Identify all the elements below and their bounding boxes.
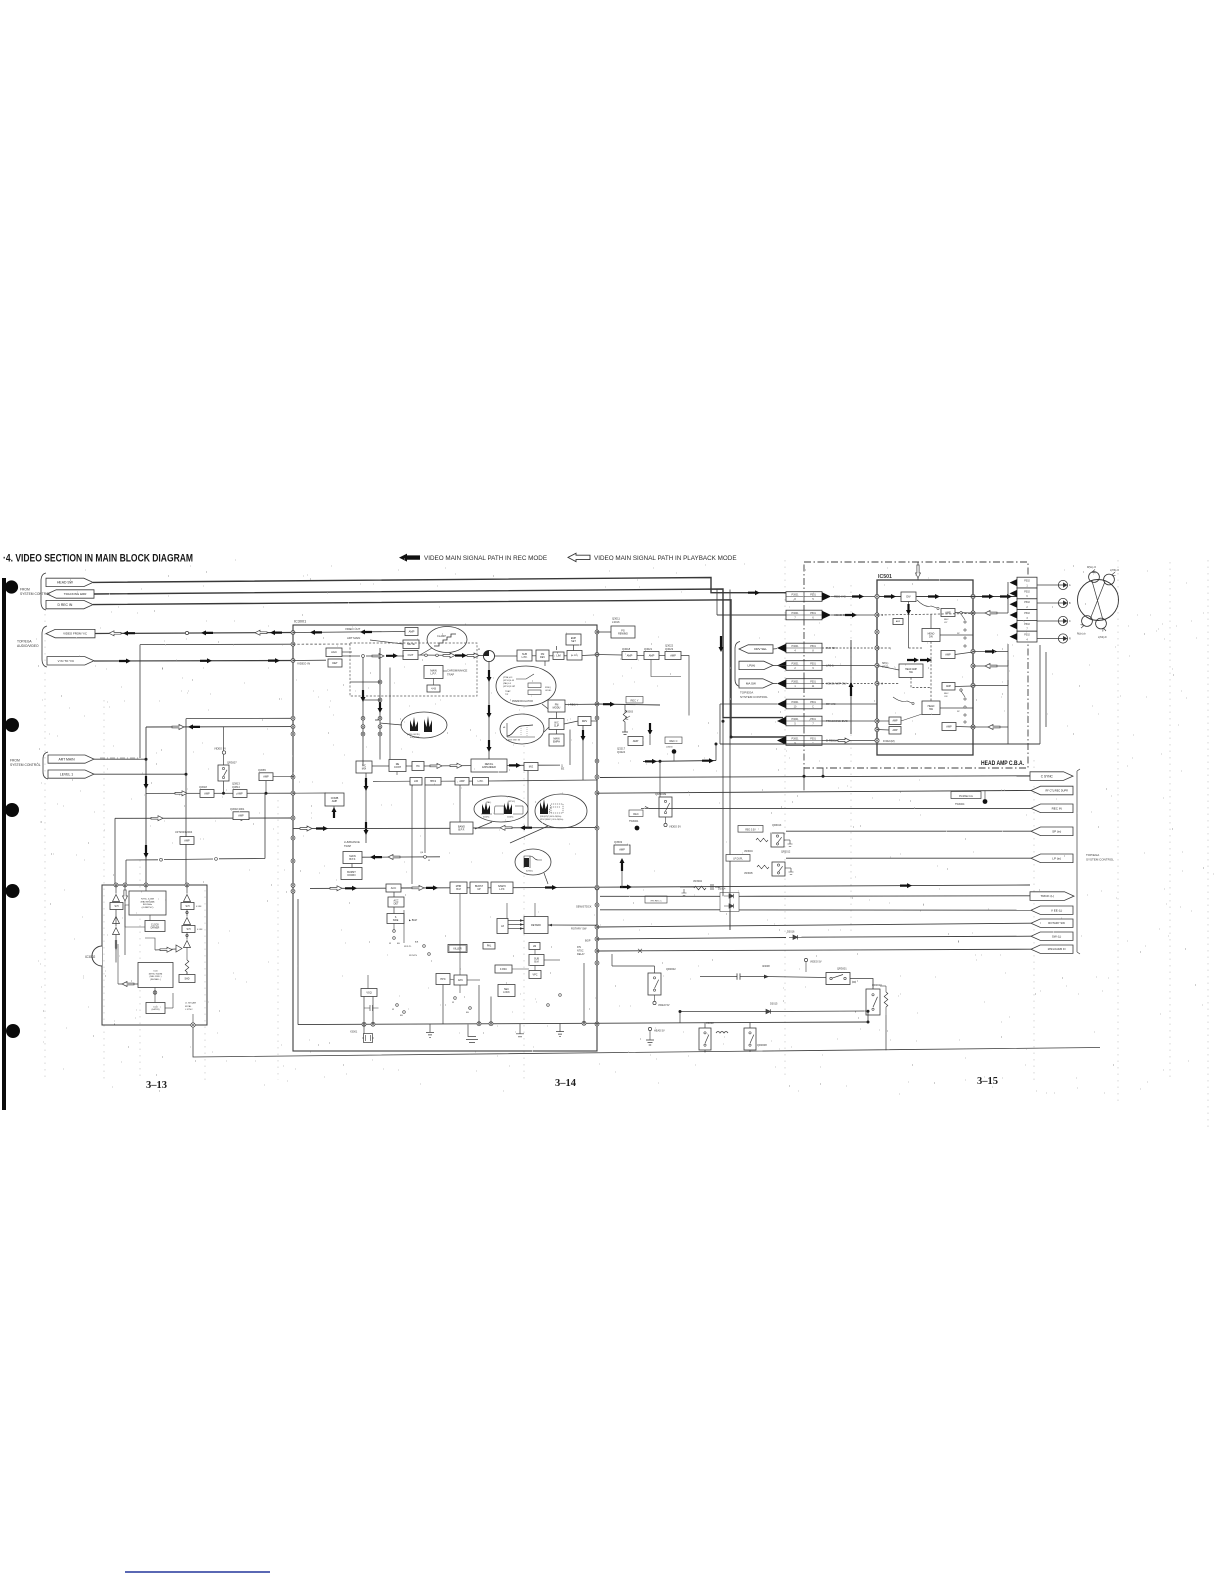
wire premod down x511 [510, 665, 512, 667]
svg-text:DRV SEL: DRV SEL [754, 647, 767, 651]
svg-text:ART MAIN: ART MAIN [58, 757, 75, 761]
binder hole 4 [6, 884, 20, 898]
svg-text:SYSTEM CONTROL: SYSTEM CONTROL [10, 763, 41, 767]
head amp cba chain-line enclosure [804, 562, 1028, 768]
svg-text:P501: P501 [810, 680, 816, 683]
svg-text:EMPH: EMPH [553, 740, 560, 743]
svg-text:AMP: AMP [893, 720, 898, 723]
emp set block [566, 634, 581, 645]
legend arrow: REC mode (filled) [399, 554, 420, 562]
svg-text:P502: P502 [1024, 612, 1030, 615]
svg-text:Q3002,3001: Q3002,3001 [230, 807, 245, 811]
scan noise speckle [36, 558, 1214, 1094]
svg-text:B.M: B.M [534, 960, 538, 963]
connector P502 pin 2 [1017, 588, 1037, 599]
wire riser x186 [185, 719, 187, 885]
wire ART MAIN feed [94, 758, 146, 760]
wire video out y632 inside [293, 632, 405, 633]
svg-text:H: H [478, 647, 480, 651]
svg-text:HPC: HPC [440, 978, 445, 981]
svg-text:AMP: AMP [238, 815, 244, 818]
long riser wire x730 [729, 590, 731, 931]
svg-text:(MB3 4.0STK): (MB3 4.0STK) [407, 734, 420, 736]
svg-text:RF CTL/REC DUPR: RF CTL/REC DUPR [1045, 789, 1068, 792]
svg-text:(PAL)0.5: (PAL)0.5 [503, 682, 512, 685]
me block [524, 763, 538, 771]
svg-text:CLAMP: CLAMP [437, 634, 446, 638]
head div block [922, 629, 940, 642]
amp A3001 (video out) [405, 628, 418, 636]
svg-text:Q3023: Q3023 [665, 647, 674, 651]
svg-text:AMP: AMP [946, 725, 952, 728]
clamp output block [403, 651, 418, 660]
svg-text:HPF2: HPF2 [430, 780, 437, 783]
svg-text:Q3018: Q3018 [622, 647, 631, 651]
retard block [524, 917, 548, 934]
svg-text:AMP: AMP [332, 800, 338, 803]
switch mid lower [893, 697, 912, 703]
wire y761 rec c [643, 761, 716, 762]
svg-text:TW3001: TW3001 [629, 820, 639, 823]
IC3002 CCD delay IC box [102, 885, 207, 1025]
rec c label boxed [665, 737, 682, 744]
connector P3001/P501 RF Y/C [786, 699, 822, 709]
wire sh to triangle row [155, 949, 176, 950]
vertical feed x380 [379, 648, 381, 760]
wire h y727 [146, 726, 293, 728]
wire vee y910 [600, 909, 720, 911]
svg-text:TRACKING ERR: TRACKING ERR [64, 592, 88, 596]
riser x584 [583, 963, 585, 1023]
svg-text:C3012: C3012 [706, 1021, 714, 1025]
svg-text:TW3004: TW3004 [955, 803, 965, 806]
Q3217 Q3224 amp [628, 737, 643, 746]
lm block [529, 943, 540, 950]
svg-text:D REC IN: D REC IN [57, 603, 72, 607]
svg-text:R(SL) ch: R(SL) ch [1087, 567, 1097, 569]
head drum circle [1078, 580, 1119, 621]
svg-text:P3001: P3001 [792, 680, 800, 683]
IC501 right pins [971, 594, 975, 598]
svg-text:VIDEO IN: VIDEO IN [297, 662, 310, 666]
svg-text:QR3013: QR3013 [772, 824, 782, 827]
comb amp block [325, 793, 344, 806]
svg-text:SYSTEM CONTROL: SYSTEM CONTROL [740, 695, 768, 699]
wire y888 beyond IC3001 [597, 885, 1030, 887]
svg-text:AMP: AMP [627, 653, 633, 657]
relay QR3009 [659, 797, 672, 817]
bracket: audio/video group [42, 626, 47, 667]
riser x364 vsq/crystal [363, 997, 365, 1034]
ic3002 internal verticals [115, 885, 117, 894]
svg-text:(NTSC)4.43: (NTSC)4.43 [503, 680, 515, 682]
s side block [387, 914, 404, 924]
svg-text:LIM: LIM [556, 655, 560, 658]
svg-text:Q3814: Q3814 [232, 785, 240, 789]
svg-text:TRAP: TRAP [447, 673, 454, 677]
video 5v supply node left [222, 751, 225, 754]
svg-text:Q3011: Q3011 [612, 617, 620, 621]
svg-text:Q3217: Q3217 [617, 747, 626, 751]
svg-text:WVSPS: WVSPS [409, 955, 417, 957]
pg/mae cal boxed label [951, 792, 981, 799]
drv block [578, 717, 591, 726]
svg-text:(NTSC)3.58: (NTSC)3.58 [503, 686, 515, 688]
rec boxed label TW3001 [629, 810, 643, 817]
svg-text:L.P.F.: L.P.F. [478, 780, 484, 783]
riser x1008 head sw [1007, 727, 1009, 744]
hpf block [567, 651, 582, 661]
ground symbols bottom [426, 1024, 434, 1037]
flag VIDEO FROM Y/C [46, 629, 95, 637]
flag LP in [1031, 854, 1073, 863]
flag LEVEL 1 [48, 770, 94, 778]
scan artifact columns [44, 614, 46, 1080]
svg-text:CHROMINANCE: CHROMINANCE [447, 669, 468, 673]
lim2 block [410, 778, 422, 786]
svg-text:AMP: AMP [670, 653, 676, 657]
svg-text:IC501: IC501 [878, 574, 892, 580]
binder hole 3 [5, 803, 19, 817]
balloon: 629khz waveform [515, 849, 551, 875]
bracket mid flags [735, 642, 740, 687]
main lpf block [424, 666, 443, 679]
svg-text:D3014: D3014 [718, 888, 726, 891]
svg-text:629kHz: 629kHz [498, 886, 507, 888]
svg-text:F.OSC: F.OSC [500, 968, 507, 971]
page edge black bar [2, 578, 6, 1110]
wire bus branch down x612 [611, 954, 613, 966]
inner h wire y682 [350, 681, 380, 683]
video 5v node right [804, 958, 807, 961]
rec y label boxed [626, 697, 643, 704]
switch contacts rec lp upper [960, 612, 962, 614]
svg-text:VSQ: VSQ [366, 991, 371, 994]
vertical x489 transistor to detail [488, 662, 490, 759]
balloon: premodulator [496, 666, 556, 706]
svg-text:P3001: P3001 [792, 612, 800, 615]
drum head L bottom [1096, 618, 1107, 629]
wire h y718 [186, 717, 293, 719]
svg-text:REC: REC [633, 812, 639, 816]
svg-text:LEVEL: LEVEL [545, 690, 552, 692]
svg-text:EE: EE [561, 768, 565, 771]
wire IC501 to P502 top [973, 596, 1017, 598]
svg-text:TRICK (L): TRICK (L) [1041, 894, 1055, 898]
wire rec in y808 [649, 807, 1031, 809]
lp dupl boxed label [726, 855, 750, 862]
detail expander block [471, 759, 507, 772]
svg-text:525(H)s: 525(H)s [507, 817, 513, 819]
verticals from C SYNC line [822, 768, 824, 776]
IC501 head amp IC box [877, 580, 973, 755]
svg-text:S/H: S/H [187, 928, 191, 931]
main emphasis block [549, 734, 564, 746]
flag LP/H [739, 661, 773, 669]
wire switch line y860 [126, 859, 158, 861]
black down arrow x489 upper [487, 705, 492, 718]
riser x491 seclock [490, 997, 492, 1024]
bracket: system control group 2 [43, 752, 48, 779]
ccd delay block [138, 963, 173, 988]
svg-text:NTSC(380KC) OK 4.43(KHz): NTSC(380KC) OK 4.43(KHz) [540, 819, 564, 821]
wire dash boundary at y758 [100, 757, 140, 759]
wires IC501 right pins to P502 [973, 612, 1008, 614]
vertical feed x397 [396, 772, 398, 776]
svg-text:VR3002: VR3002 [693, 880, 703, 883]
svg-text:SYSTEM CONTROL: SYSTEM CONTROL [1086, 857, 1114, 861]
amp u501a [941, 609, 955, 617]
amp u501b [941, 651, 955, 659]
svg-text:QR3001: QR3001 [837, 967, 847, 971]
svg-text:AMP: AMP [237, 792, 243, 795]
svg-text:4.5SF: 4.5SF [197, 929, 203, 931]
svg-text:(H.P.F.): (H.P.F.) [571, 655, 578, 657]
acc block [386, 884, 401, 892]
svg-text:TRAP: TRAP [505, 690, 511, 693]
cap symbols bottom [364, 1005, 379, 1011]
svg-text:CCD: CCD [153, 1006, 158, 1008]
svg-text:REC: REC [944, 619, 949, 621]
svg-text:B.P.F.: B.P.F. [349, 858, 356, 861]
svg-text:DOWN: DOWN [348, 874, 356, 877]
svg-text:Q3224: Q3224 [617, 750, 626, 754]
band bpf block [450, 822, 473, 834]
svg-text:AMP: AMP [204, 792, 210, 795]
flag SW L [1031, 932, 1073, 940]
svg-text:SW (L): SW (L) [1052, 934, 1061, 938]
svg-text:AGC: AGC [331, 650, 337, 654]
svg-text:P502: P502 [1024, 634, 1030, 637]
svg-text:(64/911): (64/911) [152, 1009, 160, 1011]
svg-text:ROTARY SW: ROTARY SW [1048, 921, 1065, 925]
wire riser x146 to IC3002 [145, 727, 147, 885]
svg-text:IC3002: IC3002 [85, 955, 96, 959]
svg-text:U3T2003,2004: U3T2003,2004 [175, 830, 193, 834]
svg-text:QR3007: QR3007 [227, 761, 237, 765]
IC3001 main video IC box [293, 625, 597, 1051]
svg-text:CCD: CCD [153, 971, 158, 973]
vertical riser x985 sp [984, 820, 986, 831]
svg-text:HEAD 5V: HEAD 5V [654, 1030, 665, 1033]
amp u501e [889, 717, 901, 725]
wire V IN TO Y/C bus [94, 660, 293, 663]
connector P502 pin 4 [1017, 610, 1037, 621]
svg-text:SEW/STDCK: SEW/STDCK [576, 905, 592, 909]
svg-text:P501: P501 [810, 645, 816, 648]
fm dev block [536, 650, 549, 661]
wire lp y858 [786, 857, 1031, 859]
misc stub wires bottom of IC3001 [411, 857, 413, 884]
svg-text:L.P.F.: L.P.F. [430, 673, 436, 676]
resistor in ic3002 [185, 960, 189, 974]
wire riser x140 [139, 645, 141, 758]
mute block [403, 640, 419, 649]
inner junction nodes column x363 [361, 716, 365, 720]
svg-text:L NTSC: L NTSC [185, 1009, 193, 1011]
svg-text:AMP: AMP [184, 839, 190, 842]
IC501 internal wires [908, 602, 910, 649]
node grid right rail x597 extras [595, 716, 599, 720]
svg-text:Q3065: Q3065 [258, 768, 266, 772]
svg-text:M.E: M.E [529, 765, 534, 768]
IC3001 left edge pin nodes [291, 631, 295, 635]
svg-text:PAL: PAL [487, 945, 492, 948]
sub bm block [529, 955, 544, 966]
svg-text:Q3813: Q3813 [232, 781, 240, 785]
wires amp chain y655 [597, 654, 622, 657]
bottom rail from IC3002 [193, 1027, 1100, 1057]
svg-text:LP(H): LP(H) [747, 664, 755, 668]
drum head R bottom [1082, 616, 1093, 627]
svg-text:Q3018: Q3018 [199, 785, 207, 789]
riser x479 apc [478, 985, 480, 1024]
head 5v node [648, 1027, 651, 1030]
wires l8 to retard [508, 920, 524, 922]
IC3002 top pin nodes [114, 883, 118, 887]
svg-text:·4. VIDEO SECTION IN MAIN BLOC: ·4. VIDEO SECTION IN MAIN BLOCK DIAGRAM [3, 553, 193, 565]
svg-text:(PTAL)4.3: (PTAL)4.3 [503, 676, 513, 679]
wire feeds left of connectors [711, 592, 777, 594]
wire D REC IN run [93, 600, 786, 737]
svg-text:3–13: 3–13 [146, 1080, 167, 1091]
svg-text:D REC(M): D REC(M) [883, 740, 895, 743]
svg-text:S/H: S/H [115, 905, 119, 908]
svg-text:AMP: AMP [459, 780, 465, 783]
svg-text:REC Y: REC Y [631, 699, 639, 703]
svg-text:HEAD AMP C.B.A.: HEAD AMP C.B.A. [981, 760, 1024, 767]
apc block [454, 975, 467, 985]
amp u501f [889, 727, 901, 735]
wire y656 agc to clamp [342, 655, 404, 657]
wire y781 row [373, 780, 410, 782]
ccd 64/911 block [146, 1003, 165, 1014]
svg-text:4.5SF: 4.5SF [196, 906, 202, 908]
riser x373 [372, 997, 374, 1025]
ground stub y1035 [466, 1025, 478, 1043]
svg-text:IC3001: IC3001 [294, 620, 306, 624]
svg-text:V EE (L): V EE (L) [1051, 908, 1062, 912]
wire trick y896 [600, 895, 720, 897]
svg-text:DET: DET [332, 661, 338, 665]
inner vertical rail x363 [362, 658, 364, 767]
svg-text:B.M: B.M [456, 888, 460, 891]
svg-text:AMP: AMP [619, 847, 625, 851]
629 lpf block [491, 882, 513, 894]
svg-text:P502: P502 [1024, 601, 1030, 604]
flag ROTARY SW [1031, 919, 1073, 927]
svg-text:(PAL): (PAL) [486, 801, 491, 804]
amp2 block [455, 778, 469, 786]
svg-text:P3001: P3001 [792, 718, 800, 721]
svg-text:(SECAM...): (SECAM...) [150, 978, 161, 981]
svg-text:OUT: OUT [408, 653, 414, 657]
svg-text:P3001: P3001 [792, 701, 800, 704]
svg-text:V IN TO Y/C: V IN TO Y/C [58, 659, 75, 663]
bottom area contact circles [396, 1004, 399, 1007]
svg-text:Q3021: Q3021 [644, 647, 653, 651]
inner junction nodes column x380 [378, 680, 382, 684]
riser x851 with up arrow [850, 640, 852, 734]
svg-text:R(ch) ch: R(ch) ch [1077, 634, 1086, 636]
svg-text:3–15: 3–15 [977, 1076, 998, 1087]
riser right of IC501 [1007, 582, 1009, 613]
wire LEVEL 1 feed [94, 773, 186, 775]
svg-text:QR3008: QR3008 [757, 1043, 767, 1047]
arrows inside IC501 bottom [907, 658, 919, 663]
bottom bus y1024 [298, 1022, 868, 1025]
svg-text:(NTSC:910/8f): (NTSC:910/8f) [149, 973, 163, 975]
output jacks [1058, 580, 1067, 589]
balloon: fm curve graph [500, 714, 544, 744]
svg-text:CLOCK: CLOCK [151, 924, 159, 926]
wire y857 [362, 856, 440, 858]
svg-text:DET: DET [394, 902, 399, 905]
wire rotary y923 [597, 923, 1031, 927]
hpc block [436, 974, 450, 985]
svg-text:(PAL/SECAM): (PAL/SECAM) [141, 900, 155, 903]
svg-text:DIV: DIV [906, 595, 911, 599]
svg-text:L.P.F.: L.P.F. [522, 656, 528, 659]
svg-text:P3001: P3001 [792, 645, 800, 648]
wire rec y y704 [597, 704, 660, 705]
svg-text:ACC: ACC [391, 886, 397, 890]
burst up block [470, 882, 488, 894]
vertical x528 me down [527, 771, 529, 829]
svg-text:VIDEO 5V: VIDEO 5V [658, 1004, 670, 1007]
bracket: system control group 1 [41, 573, 46, 610]
svg-text:3.6(SFTR): 3.6(SFTR) [410, 737, 420, 739]
svg-text:B.P.F.: B.P.F. [458, 829, 465, 832]
head sw block [922, 701, 940, 715]
shd block [179, 975, 195, 983]
IC501 left pins [875, 594, 879, 598]
svg-text:TOP/EGA: TOP/EGA [17, 640, 32, 644]
amp u501c [942, 683, 955, 691]
svg-text:KILLER: KILLER [453, 947, 462, 950]
svg-text:LP/: LP/ [944, 622, 948, 624]
svg-text:ART MAIN: ART MAIN [347, 636, 360, 640]
binder hole 2 [5, 718, 19, 732]
svg-text:HEAD AMP: HEAD AMP [905, 668, 917, 671]
thick down arrows mid [719, 636, 724, 652]
sh block 1 [110, 903, 123, 910]
vertical x660 qr3009 branch [659, 761, 661, 797]
svg-text:VIDEO FROM Y/C: VIDEO FROM Y/C [63, 632, 87, 636]
svg-text:AMP: AMP [409, 630, 415, 634]
svg-text:P501: P501 [810, 737, 816, 740]
svg-text:HC: HC [416, 765, 420, 768]
svg-text:AMP: AMP [633, 739, 639, 743]
inner h wire y700 [363, 699, 380, 701]
svg-text:SHD: SHD [184, 977, 189, 980]
svg-text:ON: ON [944, 696, 948, 698]
wire QR3001 to QR3010 [850, 979, 873, 990]
svg-text:LOCK: LOCK [503, 991, 510, 994]
wire ms load y949 [597, 949, 1031, 951]
svg-text:3–14: 3–14 [555, 1078, 577, 1089]
mhr bm block [450, 882, 467, 894]
small wires chroma pll [512, 968, 529, 970]
main bpf block [343, 852, 362, 864]
amp u501d [942, 723, 956, 731]
svg-text:QR3002: QR3002 [666, 967, 676, 971]
svg-text:P3001: P3001 [792, 662, 800, 665]
connector P502 pin 3 [1017, 599, 1037, 610]
svg-text:VIDEO 5V: VIDEO 5V [810, 961, 822, 964]
wire drop x680 [679, 1012, 681, 1023]
svg-text:APC: APC [458, 979, 463, 982]
